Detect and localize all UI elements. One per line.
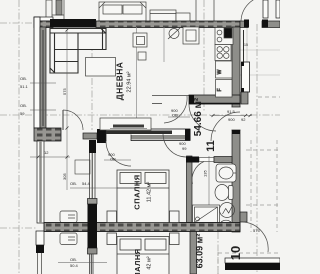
svg-text:50.4: 50.4 bbox=[70, 263, 79, 268]
svg-text:99: 99 bbox=[182, 146, 187, 151]
svg-text:42 м²: 42 м² bbox=[147, 256, 153, 269]
svg-text:54.66 м²: 54.66 м² bbox=[193, 97, 204, 136]
svg-text:СПАЛНЯ: СПАЛНЯ bbox=[133, 248, 142, 274]
svg-text:575: 575 bbox=[62, 88, 67, 95]
svg-text:92: 92 bbox=[241, 117, 246, 122]
svg-text:22.94 м²: 22.94 м² bbox=[127, 71, 133, 92]
svg-text:ОВ.: ОВ. bbox=[70, 257, 77, 262]
svg-text:135: 135 bbox=[203, 170, 208, 177]
svg-text:F: F bbox=[217, 88, 223, 91]
svg-text:15: 15 bbox=[244, 43, 248, 47]
svg-text:51.1: 51.1 bbox=[20, 84, 29, 89]
svg-text:900: 900 bbox=[228, 117, 235, 122]
svg-text:59: 59 bbox=[20, 111, 25, 116]
svg-text:91.5: 91.5 bbox=[227, 109, 236, 114]
svg-text:305: 305 bbox=[62, 173, 67, 180]
svg-text:575: 575 bbox=[253, 228, 260, 233]
svg-text:ОВ: ОВ bbox=[110, 157, 116, 162]
svg-text:ОВ.: ОВ. bbox=[20, 76, 27, 81]
svg-text:11: 11 bbox=[205, 140, 217, 152]
svg-text:63.09 м²: 63.09 м² bbox=[195, 234, 205, 269]
svg-text:W: W bbox=[217, 69, 223, 74]
svg-text:12: 12 bbox=[44, 150, 49, 155]
svg-text:ОВ.: ОВ. bbox=[70, 181, 77, 186]
svg-text:СПАЛНЯ: СПАЛНЯ bbox=[133, 174, 142, 209]
svg-text:10: 10 bbox=[228, 246, 243, 260]
svg-text:11.42 м²: 11.42 м² bbox=[147, 182, 153, 203]
svg-text:ОВ: ОВ bbox=[172, 113, 178, 118]
svg-text:ДНЕВНА: ДНЕВНА bbox=[115, 62, 125, 101]
svg-text:54.4: 54.4 bbox=[82, 181, 91, 186]
svg-text:ОВ.: ОВ. bbox=[20, 103, 27, 108]
